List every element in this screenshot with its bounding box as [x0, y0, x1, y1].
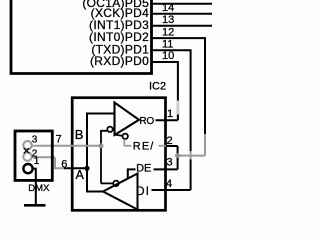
svg-text:7: 7 [56, 133, 62, 145]
svg-text:DE: DE [136, 162, 151, 174]
svg-text:10: 10 [162, 50, 174, 62]
svg-text:4: 4 [166, 178, 172, 190]
svg-text:14: 14 [162, 2, 174, 14]
svg-text:RO: RO [139, 116, 154, 127]
svg-text:3: 3 [32, 134, 38, 145]
svg-text:1: 1 [167, 108, 173, 120]
svg-text:3: 3 [167, 156, 173, 168]
svg-text:DI: DI [136, 186, 150, 198]
svg-text:(RXD)PD0: (RXD)PD0 [90, 54, 149, 68]
svg-text:2: 2 [167, 135, 173, 147]
svg-text:11: 11 [162, 39, 173, 51]
svg-text:A: A [76, 168, 85, 182]
svg-text:6: 6 [61, 159, 67, 171]
svg-text:IC2: IC2 [149, 81, 166, 93]
svg-text:B: B [75, 127, 84, 142]
svg-text:13: 13 [162, 14, 174, 26]
svg-text:1: 1 [34, 156, 40, 167]
svg-text:12: 12 [162, 26, 174, 38]
svg-text:RE/: RE/ [133, 141, 155, 153]
svg-text:DMX: DMX [28, 183, 50, 194]
